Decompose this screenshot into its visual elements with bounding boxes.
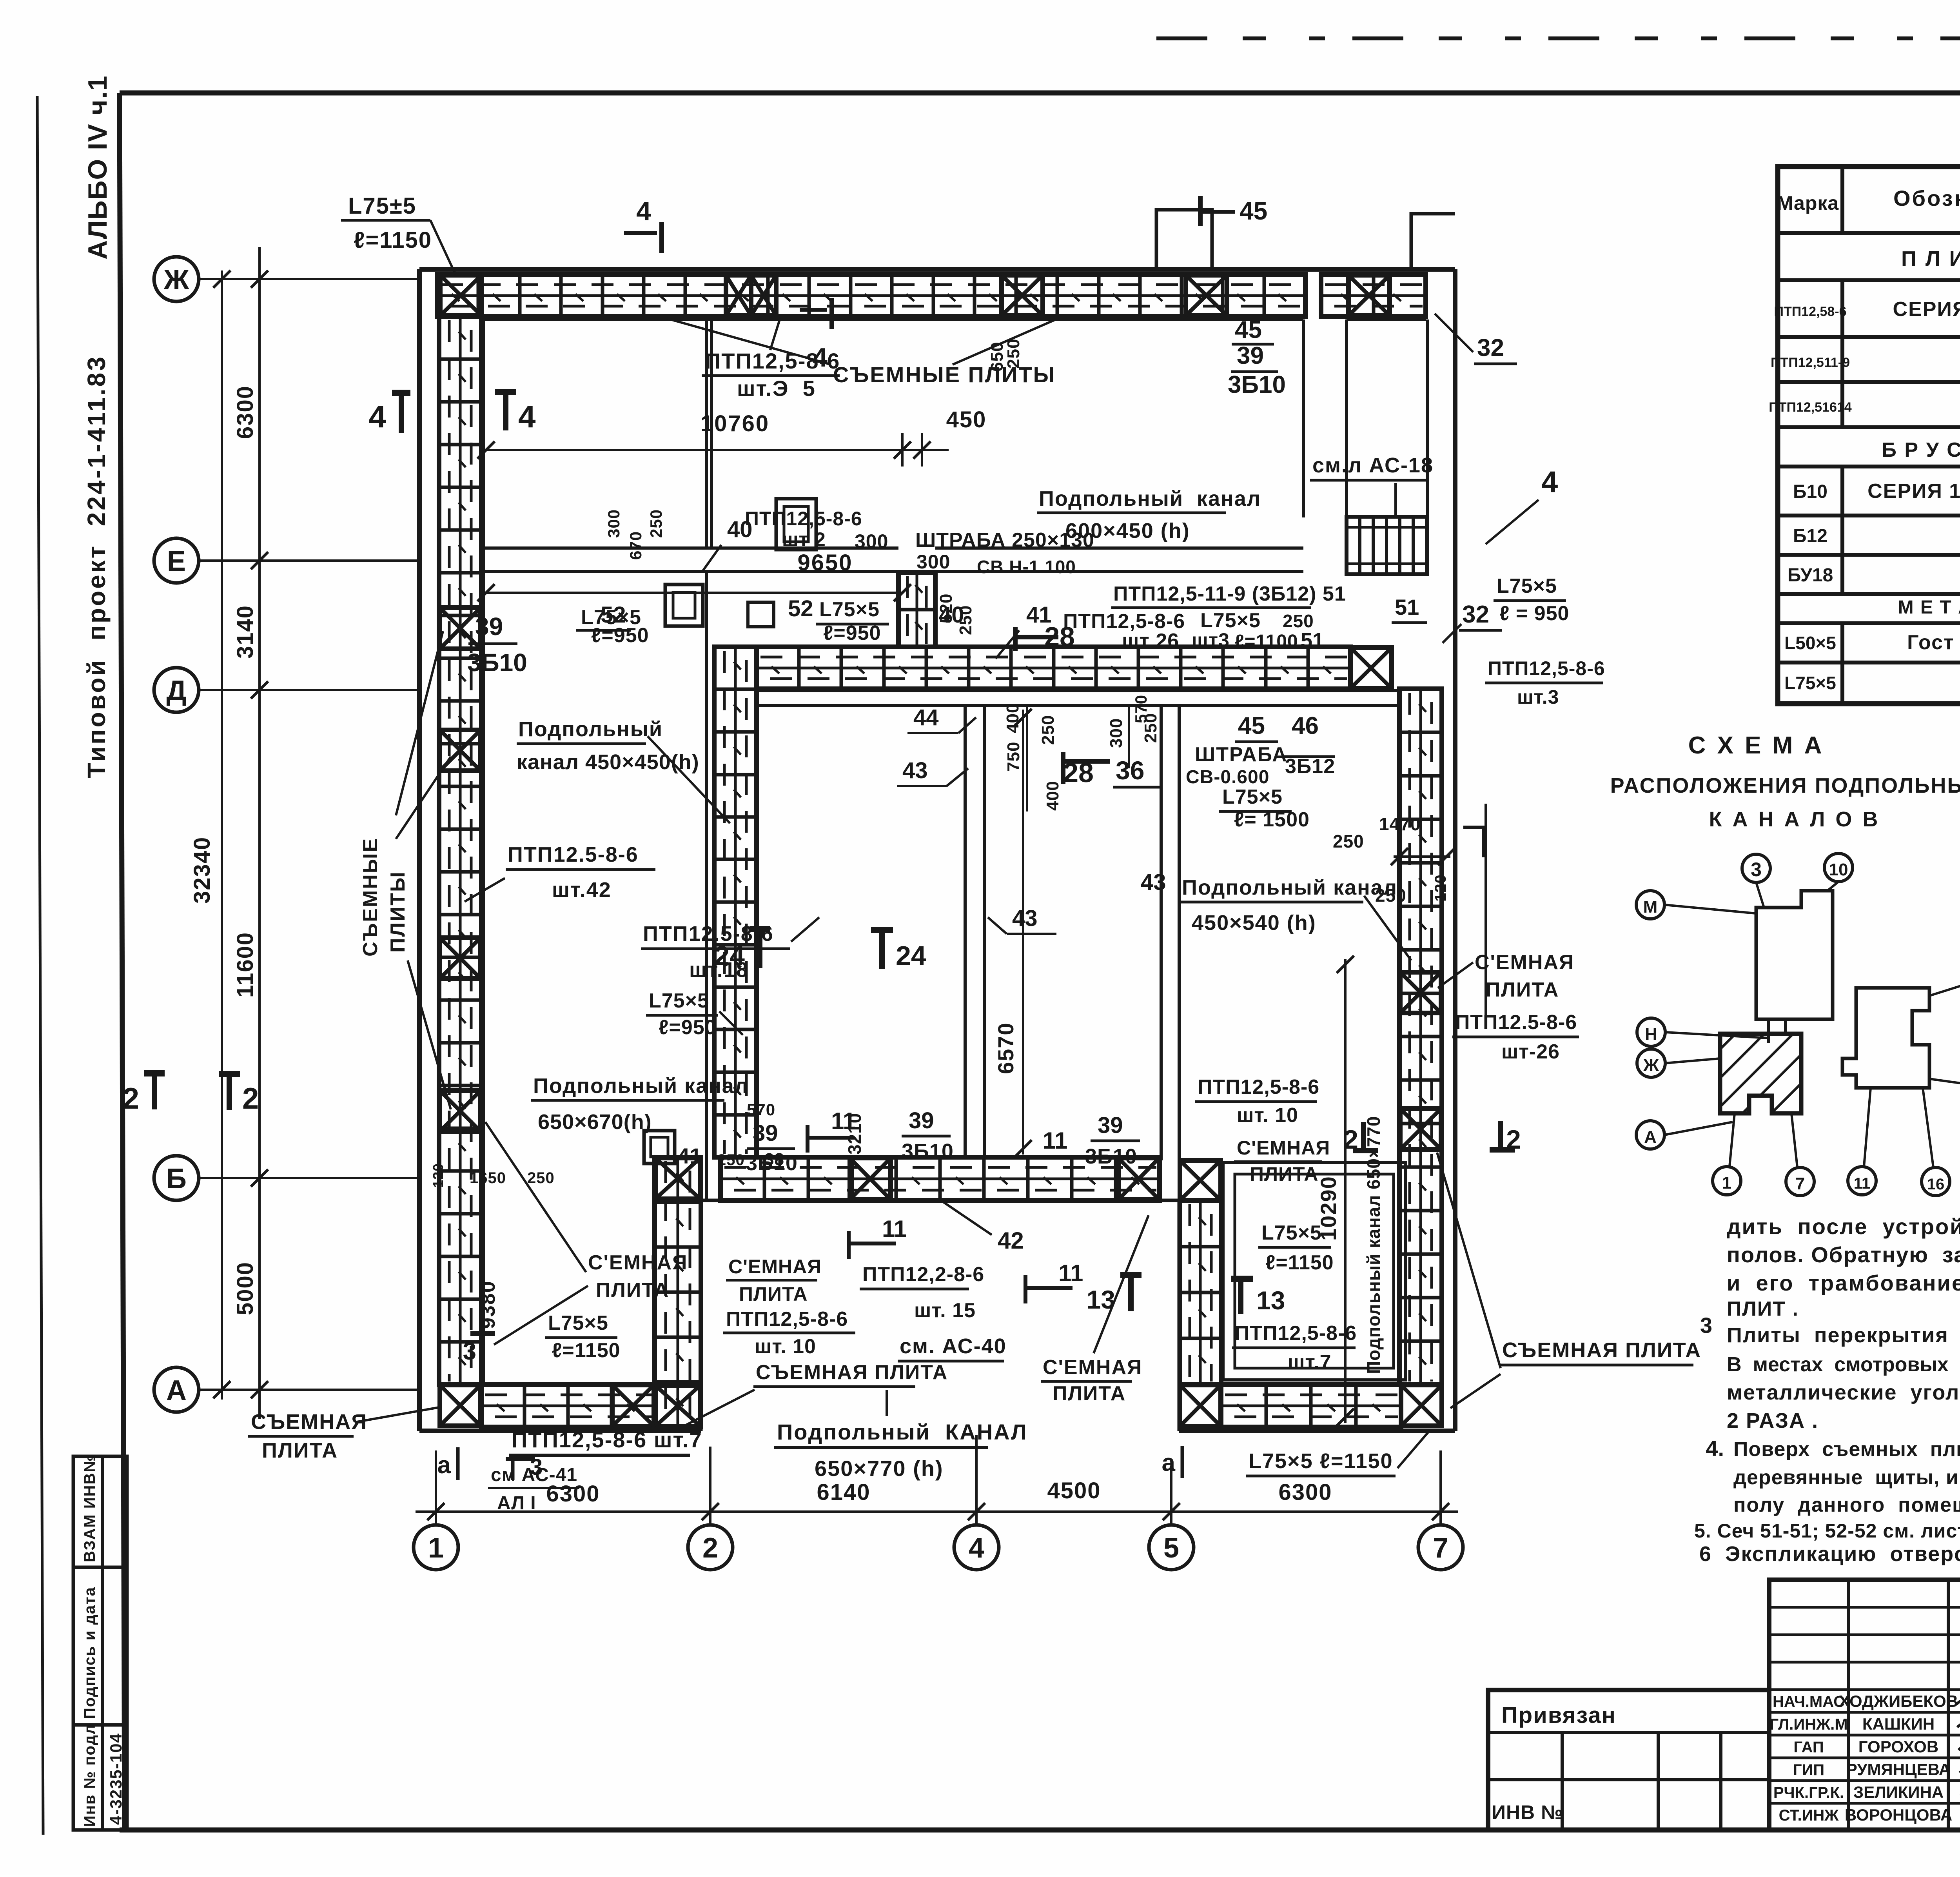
svg-text:Подпольный канал: Подпольный канал <box>1039 487 1261 510</box>
svg-text:39: 39 <box>475 612 503 641</box>
svg-text:1: 1 <box>428 1532 444 1564</box>
svg-text:46: 46 <box>1292 712 1319 739</box>
svg-text:450×540 (h): 450×540 (h) <box>1192 911 1316 935</box>
svg-text:ℓ=1100: ℓ=1100 <box>1235 631 1298 652</box>
section mark 11 c <box>1024 1275 1027 1303</box>
schema hatched block <box>1720 1034 1801 1113</box>
dim 6570 vertical <box>1022 710 1024 1155</box>
svg-text:L75×5: L75×5 <box>1497 575 1557 597</box>
svg-text:В местах смотровых люков с: В местах смотровых люков съемные плиты <box>1727 1353 1960 1376</box>
channel band left vertical <box>439 316 481 1385</box>
svg-text:39: 39 <box>1237 342 1264 369</box>
svg-text:300: 300 <box>916 551 950 573</box>
svg-text:ГИП: ГИП <box>1793 1761 1824 1779</box>
svg-text:4500: 4500 <box>1047 1478 1101 1503</box>
table outer border <box>1778 167 1960 704</box>
svg-text:4: 4 <box>636 196 651 226</box>
svg-text:1470: 1470 <box>1379 814 1421 834</box>
svg-text:400: 400 <box>1043 781 1062 811</box>
porch top 1 <box>1156 210 1212 269</box>
svg-text:39: 39 <box>1098 1113 1123 1138</box>
section mark T4 inner <box>495 389 516 395</box>
removable plate X bottom-right corner <box>1401 1385 1442 1426</box>
channel band corridor stub vertical <box>898 572 935 647</box>
title block left part lines <box>1488 1731 1769 1734</box>
svg-text:СЪЕМНАЯ: СЪЕМНАЯ <box>251 1410 367 1434</box>
svg-text:Марка: Марка <box>1777 192 1839 214</box>
svg-text:Б: Б <box>166 1163 187 1194</box>
svg-text:L75×5: L75×5 <box>1261 1222 1322 1244</box>
svg-text:СЪЕМНЫЕ: СЪЕМНЫЕ <box>359 837 382 957</box>
svg-text:120: 120 <box>430 1163 446 1188</box>
channel band bottom-left horizontal <box>481 1385 655 1427</box>
svg-text:СВ.Н-1.100: СВ.Н-1.100 <box>977 557 1076 577</box>
svg-text:4: 4 <box>1541 465 1558 499</box>
svg-text:3: 3 <box>1700 1313 1712 1338</box>
axis circle Д <box>154 668 199 712</box>
axis circle Е <box>154 538 199 583</box>
svg-text:Д: Д <box>166 675 186 706</box>
corridor wall right <box>1345 319 1348 517</box>
svg-text:ПТП12,5-11-9 (3Б12) 51: ПТП12,5-11-9 (3Б12) 51 <box>1113 583 1346 605</box>
svg-text:ЗЕЛИКИНА: ЗЕЛИКИНА <box>1853 1783 1944 1801</box>
svg-text:РУМЯНЦЕВА: РУМЯНЦЕВА <box>1846 1760 1951 1779</box>
svg-text:250: 250 <box>717 1151 745 1169</box>
svg-text:СТ.ИНЖ: СТ.ИНЖ <box>1779 1807 1839 1824</box>
svg-text:3: 3 <box>1751 859 1762 880</box>
removable plate X top band 4 <box>1186 275 1227 316</box>
svg-text:РАСПОЛОЖЕНИЯ ПОДПОЛЬНЫХ: РАСПОЛОЖЕНИЯ ПОДПОЛЬНЫХ <box>1610 774 1960 797</box>
svg-text:Б Р У С К О В Ы Е П Е Р Е: Б Р У С К О В Ы Е П Е Р Е М Ы Ч К И <box>1882 439 1960 461</box>
svg-text:42: 42 <box>998 1227 1024 1254</box>
svg-text:11: 11 <box>1854 1175 1870 1192</box>
svg-text:L50×5: L50×5 <box>1784 633 1836 653</box>
svg-text:шт. 10: шт. 10 <box>755 1335 816 1358</box>
svg-text:ПТП12,5-8-6: ПТП12,5-8-6 <box>1235 1322 1357 1345</box>
schema circle 1 <box>1713 1167 1741 1195</box>
axis circle 2 <box>688 1525 733 1570</box>
svg-text:ПТП12,2-8-6: ПТП12,2-8-6 <box>862 1263 984 1286</box>
svg-text:ПТП12,5-8-6: ПТП12,5-8-6 <box>1488 657 1605 679</box>
svg-text:РЧК.ГР.К.: РЧК.ГР.К. <box>1773 1784 1844 1801</box>
svg-text:ГАП: ГАП <box>1793 1739 1824 1756</box>
schema circle 16 <box>1922 1167 1950 1196</box>
svg-text:2: 2 <box>242 1082 259 1115</box>
svg-text:ℓ=1150: ℓ=1150 <box>552 1339 621 1362</box>
svg-text:16: 16 <box>1927 1176 1945 1193</box>
svg-text:деревянные щиты, имеющие фак: деревянные щиты, имеющие фактурный слой,… <box>1733 1466 1960 1489</box>
svg-text:шт3: шт3 <box>1192 629 1230 651</box>
svg-text:250: 250 <box>1141 713 1160 743</box>
svg-text:L75×5: L75×5 <box>1222 786 1283 808</box>
svg-text:250: 250 <box>647 509 665 538</box>
channel band lower vertical near axis 2 <box>655 1157 701 1427</box>
wall axis 5 <box>1160 706 1163 1160</box>
axis circle А <box>154 1367 199 1412</box>
svg-text:ℓ=1150: ℓ=1150 <box>1265 1251 1334 1274</box>
wall top-left room divider <box>705 319 708 548</box>
svg-text:СЕРИЯ 1.138-10 в.1: СЕРИЯ 1.138-10 в.1 <box>1867 480 1960 503</box>
svg-text:2: 2 <box>123 1082 139 1115</box>
svg-text:шт-26: шт-26 <box>1501 1040 1560 1063</box>
svg-text:ℓ = 950: ℓ = 950 <box>1499 602 1569 625</box>
svg-text:НАЧ.МАС: НАЧ.МАС <box>1773 1693 1845 1710</box>
removable plate X top corner <box>440 275 481 316</box>
svg-text:П Л И Т Ы П Л О С К И Е: П Л И Т Ы П Л О С К И Е <box>1901 247 1960 270</box>
section mark 11 b <box>847 1231 851 1259</box>
svg-text:45: 45 <box>1240 197 1267 225</box>
svg-text:L75×5: L75×5 <box>1200 609 1261 632</box>
svg-text:А: А <box>166 1375 187 1406</box>
svg-text:С'ЕМНАЯ: С'ЕМНАЯ <box>1043 1356 1142 1379</box>
bottom dim chain line <box>416 1510 1458 1513</box>
wall south of mid channel <box>757 689 1399 692</box>
removable plate X top band 2a <box>726 275 751 316</box>
hatch opening symbol lower <box>644 1131 675 1164</box>
removable plate X bottom-left band right end <box>612 1385 654 1426</box>
removable plate X lower vert band top <box>655 1158 700 1199</box>
svg-text:Подпольный канал: Подпольный канал <box>533 1074 749 1098</box>
wall bottom-right outer <box>1179 1429 1455 1433</box>
svg-text:7: 7 <box>1433 1532 1448 1564</box>
svg-text:Е: Е <box>167 546 186 577</box>
ladder element see sheet AS-18 <box>1347 517 1427 574</box>
section mark 4 top b <box>800 308 827 312</box>
svg-text:400: 400 <box>1003 703 1022 733</box>
svg-text:39: 39 <box>753 1120 778 1146</box>
svg-text:450: 450 <box>946 407 987 432</box>
svg-text:металлические уголки L50×5,: металлические уголки L50×5, окрашенные к… <box>1727 1381 1960 1404</box>
top torn-edge dashed line <box>1156 36 1960 40</box>
svg-text:6570: 6570 <box>993 1022 1018 1074</box>
svg-text:СВ-0.600: СВ-0.600 <box>1186 767 1269 788</box>
dim line 9650 <box>486 592 902 594</box>
schema right block <box>1842 988 1929 1088</box>
svg-text:ℓ=950: ℓ=950 <box>659 1016 717 1039</box>
svg-text:Подпольный КАНАЛ: Подпольный КАНАЛ <box>777 1420 1028 1444</box>
table row lines <box>1778 231 1960 235</box>
svg-text:АЛ I: АЛ I <box>497 1493 536 1514</box>
wall left inner <box>482 319 485 1385</box>
svg-text:С'ЕМНАЯ: С'ЕМНАЯ <box>728 1256 822 1278</box>
svg-text:9380: 9380 <box>477 1280 499 1329</box>
schema upper-left block <box>1756 891 1833 1019</box>
svg-text:3: 3 <box>463 1338 476 1365</box>
svg-text:см.л АС-18: см.л АС-18 <box>1312 454 1434 477</box>
svg-text:11: 11 <box>1058 1260 1083 1286</box>
section mark T13 <box>1238 1279 1243 1314</box>
wall top outer <box>419 267 1455 272</box>
svg-text:5000: 5000 <box>232 1262 258 1315</box>
svg-text:1650: 1650 <box>470 1169 506 1187</box>
svg-text:45: 45 <box>1235 316 1262 343</box>
left dim chain line <box>258 247 261 1419</box>
svg-text:Инв № подл: Инв № подл <box>81 1724 98 1827</box>
svg-text:ШТРАБА: ШТРАБА <box>1195 743 1288 766</box>
removable plate X right band y2530 <box>1400 972 1441 1013</box>
svg-text:полу данного помещения .: полу данного помещения . <box>1733 1494 1960 1516</box>
svg-text:ПЛИТА: ПЛИТА <box>1053 1382 1126 1405</box>
removable plate X left band y2790 <box>440 1091 481 1131</box>
svg-text:43: 43 <box>902 758 928 783</box>
svg-text:39: 39 <box>909 1108 934 1133</box>
elevation bracket right margin <box>1463 827 1483 857</box>
svg-text:С'ЕМНАЯ: С'ЕМНАЯ <box>1475 951 1574 974</box>
svg-text:а: а <box>437 1452 451 1479</box>
svg-text:300: 300 <box>604 509 623 538</box>
svg-text:L75×5: L75×5 <box>1784 673 1836 693</box>
removable plate X mid band right end <box>1350 648 1392 688</box>
svg-text:ПТП12,5-8-6: ПТП12,5-8-6 <box>1198 1076 1319 1098</box>
svg-text:шт.42: шт.42 <box>552 878 612 902</box>
removable plate X top band 2b <box>751 275 776 316</box>
svg-text:шт.3: шт.3 <box>1517 686 1559 708</box>
svg-text:ПЛИТА: ПЛИТА <box>1250 1163 1318 1185</box>
axis drop lines <box>435 1450 437 1525</box>
svg-text:4.: 4. <box>1706 1436 1724 1461</box>
svg-text:L75×5: L75×5 <box>819 598 880 621</box>
svg-text:ℓ=950: ℓ=950 <box>591 624 649 647</box>
svg-text:Плиты перекрытия каналов ук: Плиты перекрытия каналов укладывать на ц… <box>1727 1323 1960 1347</box>
svg-text:ПЛИТЫ: ПЛИТЫ <box>387 871 409 953</box>
svg-text:Ж: Ж <box>1643 1056 1659 1075</box>
svg-text:750: 750 <box>1004 742 1023 771</box>
removable plate X top band right <box>1348 275 1390 316</box>
svg-text:ПЛИТА: ПЛИТА <box>262 1439 338 1462</box>
svg-text:41: 41 <box>1026 602 1052 628</box>
svg-text:полов. Обратную засыпку грун: полов. Обратную засыпку грунта за стенки… <box>1727 1242 1960 1267</box>
svg-text:40: 40 <box>727 517 753 542</box>
svg-text:32340: 32340 <box>189 837 215 904</box>
axis circle Ж <box>154 257 199 301</box>
axis circle 4 <box>954 1525 999 1570</box>
svg-text:120: 120 <box>1432 874 1449 902</box>
svg-text:9650: 9650 <box>797 550 853 575</box>
svg-text:32: 32 <box>1477 334 1504 361</box>
svg-text:см. АС-40: см. АС-40 <box>900 1334 1007 1358</box>
svg-text:250: 250 <box>1283 611 1314 631</box>
svg-text:45: 45 <box>1238 712 1265 739</box>
svg-text:шт.7: шт.7 <box>1288 1351 1332 1374</box>
svg-text:670: 670 <box>626 531 645 560</box>
svg-text:6300: 6300 <box>232 385 258 439</box>
svg-text:5: 5 <box>1163 1532 1179 1564</box>
axis circle Б <box>154 1156 199 1200</box>
svg-text:3Б10: 3Б10 <box>902 1140 954 1163</box>
svg-text:ℓ=950: ℓ=950 <box>823 622 881 644</box>
channel band top horizontal <box>437 274 1305 316</box>
svg-text:L75×5: L75×5 <box>649 989 709 1012</box>
svg-text:L75×5 ℓ=1150: L75×5 ℓ=1150 <box>1249 1449 1393 1473</box>
svg-text:Н: Н <box>1645 1025 1657 1044</box>
svg-text:Подпольный канал 650×770: Подпольный канал 650×770 <box>1363 1116 1384 1374</box>
svg-text:3Б12: 3Б12 <box>1285 755 1335 778</box>
svg-text:Типовой проект 224-1-411.83: Типовой проект 224-1-411.83 <box>82 355 111 778</box>
corridor wall left <box>1302 319 1305 517</box>
section mark T2 left <box>219 1071 240 1077</box>
svg-text:3140: 3140 <box>232 605 258 659</box>
svg-text:ПЛИТА: ПЛИТА <box>739 1283 808 1305</box>
svg-text:Поверх съемных плит перекры: Поверх съемных плит перекрытия каналов у… <box>1733 1438 1960 1461</box>
removable plate X mid-bottom band a <box>850 1158 891 1200</box>
svg-text:4: 4 <box>969 1532 984 1564</box>
schema circle 11 <box>1848 1167 1876 1195</box>
svg-text:ПЛИТА: ПЛИТА <box>1486 978 1559 1001</box>
svg-text:К А Н А Л О В: К А Н А Л О В <box>1709 808 1880 831</box>
svg-text:АЛЬБО IV ч.1: АЛЬБО IV ч.1 <box>83 75 113 260</box>
svg-text:а: а <box>1162 1449 1176 1476</box>
section mark 11 a <box>806 1125 809 1153</box>
svg-text:2: 2 <box>1506 1125 1521 1155</box>
svg-text:51: 51 <box>1395 595 1419 619</box>
svg-text:11: 11 <box>1043 1127 1067 1154</box>
table column lines <box>1840 167 1844 233</box>
removable plate X left band y2400 <box>440 938 481 978</box>
svg-text:11: 11 <box>831 1108 856 1134</box>
svg-text:С'ЕМНАЯ: С'ЕМНАЯ <box>588 1251 688 1274</box>
removable plate X bottom-right band left end <box>1180 1385 1221 1426</box>
wall bottom-left inner <box>484 1383 655 1386</box>
svg-text:ШТРАБА 250×130: ШТРАБА 250×130 <box>915 529 1094 552</box>
axis circle 5 <box>1149 1525 1194 1570</box>
left overall dim line <box>221 270 223 1400</box>
svg-text:Подпись и дата: Подпись и дата <box>81 1587 98 1719</box>
schema circle 7 <box>1786 1167 1814 1196</box>
hatch opening symbol mid 1 <box>665 585 703 626</box>
schema connector <box>1784 1019 1787 1034</box>
svg-text:L75±5: L75±5 <box>348 193 416 219</box>
svg-text:ВОРОНЦОВА: ВОРОНЦОВА <box>1845 1806 1952 1824</box>
svg-text:Подпольный: Подпольный <box>518 717 663 741</box>
svg-text:3Б10: 3Б10 <box>1085 1145 1137 1168</box>
svg-text:36: 36 <box>1116 756 1144 785</box>
svg-text:Обозначение: Обозначение <box>1893 186 1960 211</box>
svg-text:М Е Т А Л Л И Ч Е С К И Е: М Е Т А Л Л И Ч Е С К И Е У Г О Л К И <box>1898 597 1960 618</box>
inner room walls bottom-right block <box>1223 1162 1405 1380</box>
svg-text:52: 52 <box>788 596 813 621</box>
schema circle N <box>1637 1018 1665 1046</box>
svg-text:ПЛИТА: ПЛИТА <box>596 1279 669 1302</box>
removable plate X bottom-left corner <box>440 1385 481 1426</box>
svg-text:ПТП12,5-8-6 шт.7: ПТП12,5-8-6 шт.7 <box>512 1427 702 1452</box>
schema circle A <box>1636 1121 1664 1149</box>
svg-text:ИНВ №: ИНВ № <box>1492 1801 1563 1823</box>
axis circle 7 <box>1418 1525 1463 1570</box>
svg-text:ℓ=1150: ℓ=1150 <box>354 227 432 253</box>
removable plate X U-block left top <box>1180 1160 1221 1200</box>
removable plate X left band y1870 <box>440 730 481 771</box>
svg-text:6 Экспликацию отверстий см.: 6 Экспликацию отверстий см. на листе АС-… <box>1699 1542 1960 1566</box>
wall recess step left <box>699 1200 703 1431</box>
svg-text:650×670(h): 650×670(h) <box>538 1110 652 1134</box>
bottom-left stamp column <box>73 1456 127 1830</box>
wall right inner upper <box>1426 319 1429 517</box>
svg-text:ВЗАМ ИНВ№: ВЗАМ ИНВ№ <box>81 1454 98 1562</box>
axis circle 1 <box>414 1525 458 1570</box>
wall west of channel axis 2 <box>705 572 708 1200</box>
svg-text:11: 11 <box>882 1216 907 1242</box>
wall left outer <box>417 269 422 1431</box>
svg-text:44: 44 <box>913 705 939 730</box>
svg-text:см АС-41: см АС-41 <box>491 1465 577 1485</box>
svg-text:51: 51 <box>1301 629 1324 652</box>
svg-text:шт 26: шт 26 <box>1122 630 1179 652</box>
svg-text:ПТП12.5-8-6: ПТП12.5-8-6 <box>643 922 774 946</box>
svg-text:4: 4 <box>369 399 387 434</box>
svg-text:300: 300 <box>1107 718 1126 748</box>
svg-text:СЕРИЯ 1.243-2: СЕРИЯ 1.243-2 <box>1893 298 1960 321</box>
svg-text:ГЛ.ИНЖ.М: ГЛ.ИНЖ.М <box>1769 1716 1847 1733</box>
svg-text:11600: 11600 <box>232 932 258 998</box>
svg-text:43: 43 <box>1012 906 1038 931</box>
channel band upper vertical axis 2 <box>714 647 757 1157</box>
title block left part <box>1488 1690 1769 1830</box>
channel band mid horizontal <box>757 647 1350 689</box>
section mark 45 top porch <box>1198 196 1203 226</box>
svg-text:Б10: Б10 <box>1793 481 1828 502</box>
svg-text:Гост 8509-72: Гост 8509-72 <box>1907 631 1960 654</box>
svg-text:шт 2: шт 2 <box>782 528 826 550</box>
hatch opening symbol mid 2 <box>748 602 774 627</box>
svg-text:2 РАЗА .: 2 РАЗА . <box>1727 1409 1818 1432</box>
channel band U-block left vertical <box>1180 1200 1221 1385</box>
svg-text:С Х Е М А: С Х Е М А <box>1688 732 1824 759</box>
removable plate X lower vert band bottom <box>655 1385 700 1426</box>
channel band bottom-right horizontal <box>1221 1385 1401 1427</box>
svg-text:570: 570 <box>747 1100 775 1119</box>
svg-text:10: 10 <box>1829 860 1848 879</box>
svg-text:250: 250 <box>1038 715 1058 745</box>
svg-text:10760: 10760 <box>701 411 769 436</box>
svg-text:2: 2 <box>702 1532 718 1564</box>
svg-text:ℓ= 1500: ℓ= 1500 <box>1234 808 1310 831</box>
svg-text:24: 24 <box>896 940 926 971</box>
removable plate X left band y1560 <box>440 608 481 649</box>
svg-text:13: 13 <box>1256 1286 1285 1315</box>
wall axis 4 <box>964 706 967 1157</box>
wall recess step right <box>1178 1200 1181 1431</box>
schema circle 10 <box>1824 853 1853 882</box>
dim 10290 vertical <box>1344 959 1347 1423</box>
svg-text:L75×5: L75×5 <box>548 1312 608 1334</box>
svg-text:250: 250 <box>527 1169 555 1187</box>
dim line 10760/450 <box>486 449 949 451</box>
title block main outline <box>1769 1580 1960 1830</box>
svg-text:3Б10: 3Б10 <box>467 648 527 677</box>
svg-text:ПТП12,511-9: ПТП12,511-9 <box>1771 355 1850 370</box>
svg-text:6300: 6300 <box>1278 1479 1332 1505</box>
left axis leader lines <box>199 278 419 280</box>
wall bottom-left outer <box>419 1429 701 1433</box>
svg-text:ПЛИТ .: ПЛИТ . <box>1727 1298 1799 1320</box>
svg-text:650×770 (h): 650×770 (h) <box>815 1456 944 1481</box>
svg-text:250: 250 <box>1333 831 1364 851</box>
svg-text:дить после устройства перек: дить после устройства перекрытия над под… <box>1727 1214 1960 1239</box>
removable plate X top band 3 <box>1002 275 1043 316</box>
svg-text:4: 4 <box>518 399 536 434</box>
wall right outer <box>1453 269 1457 1431</box>
svg-text:32: 32 <box>1462 601 1489 628</box>
schema circle M <box>1636 891 1664 919</box>
svg-text:СЪЕМНЫЕ ПЛИТЫ: СЪЕМНЫЕ ПЛИТЫ <box>833 362 1056 387</box>
svg-text:шт. 15: шт. 15 <box>914 1299 976 1322</box>
svg-text:7: 7 <box>1795 1174 1805 1193</box>
section mark T24 <box>871 927 893 933</box>
removable plate X right band y2880 <box>1400 1109 1441 1149</box>
svg-text:300: 300 <box>855 530 888 552</box>
removable plate X mid-bottom band b <box>1118 1158 1159 1200</box>
schema circle Zh <box>1637 1049 1665 1077</box>
